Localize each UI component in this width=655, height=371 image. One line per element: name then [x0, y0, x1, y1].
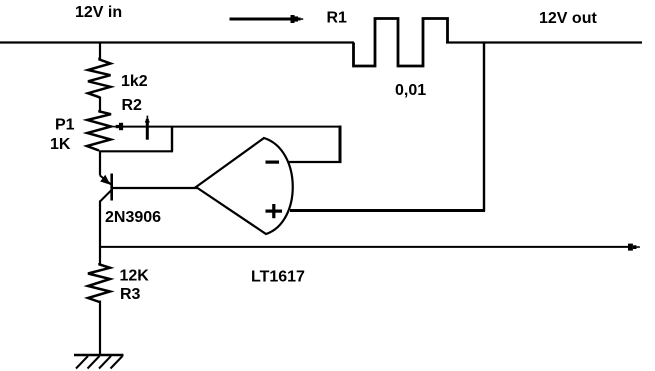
wire top rail right (12V out rail) — [446, 41, 642, 43]
transistor Q1 collector — [100, 190, 112, 202]
op-amp plus symbol — [266, 204, 283, 218]
svg-text:R1: R1 — [327, 10, 348, 27]
wire wiper strap horizontal to pot bottom — [99, 150, 173, 152]
svg-text:1k2: 1k2 — [121, 73, 148, 90]
ground — [74, 355, 124, 369]
wire from pot bottom to transistor emitter — [99, 151, 101, 176]
resistor R3 body — [88, 263, 110, 302]
svg-text:LT1617: LT1617 — [251, 269, 305, 286]
wire inverting input (-) — [288, 161, 342, 163]
svg-text:R2: R2 — [122, 97, 143, 114]
svg-text:P1: P1 — [55, 117, 75, 134]
potentiometer wiper arrow — [113, 123, 341, 130]
op-amp minus symbol — [266, 161, 280, 164]
wire R3 to ground — [99, 301, 101, 356]
transistor Q1 base bar — [110, 174, 113, 201]
resistor R1 (current-sense square-wave body) — [354, 19, 448, 67]
wire top rail left (12V in rail) — [0, 41, 354, 43]
current direction arrow — [230, 15, 304, 23]
svg-text:0,01: 0,01 — [395, 82, 426, 99]
wire non-inverting input (+) to sense node — [290, 209, 485, 212]
svg-text:12K: 12K — [120, 268, 150, 285]
wire from wiper line down to inverting input — [339, 126, 342, 163]
potentiometer adjust up-arrow — [145, 116, 149, 140]
wire wiper strap vertical — [171, 127, 173, 152]
wire base to op-amp output — [112, 187, 197, 189]
wire collector down through feedback node — [99, 201, 101, 265]
svg-text:12V out: 12V out — [539, 10, 597, 27]
svg-text:R3: R3 — [120, 286, 141, 303]
wire feedback output arrow (to LT1617 FB) — [100, 244, 640, 251]
op-amp U1 (LT1617 comparator, apex left) — [196, 138, 293, 234]
svg-text:1K: 1K — [50, 136, 71, 153]
wire from 12V out rail down to + input — [483, 43, 485, 212]
svg-text:2N3906: 2N3906 — [105, 209, 161, 226]
svg-text:12V in: 12V in — [75, 4, 122, 21]
potentiometer P1 body — [87, 110, 111, 151]
resistor R2 body — [88, 58, 111, 98]
wire between R2 and P1 — [99, 97, 101, 112]
node A (junction of 12V rail and divider) — [99, 43, 101, 60]
transistor Q1 emitter with arrow — [100, 175, 112, 185]
